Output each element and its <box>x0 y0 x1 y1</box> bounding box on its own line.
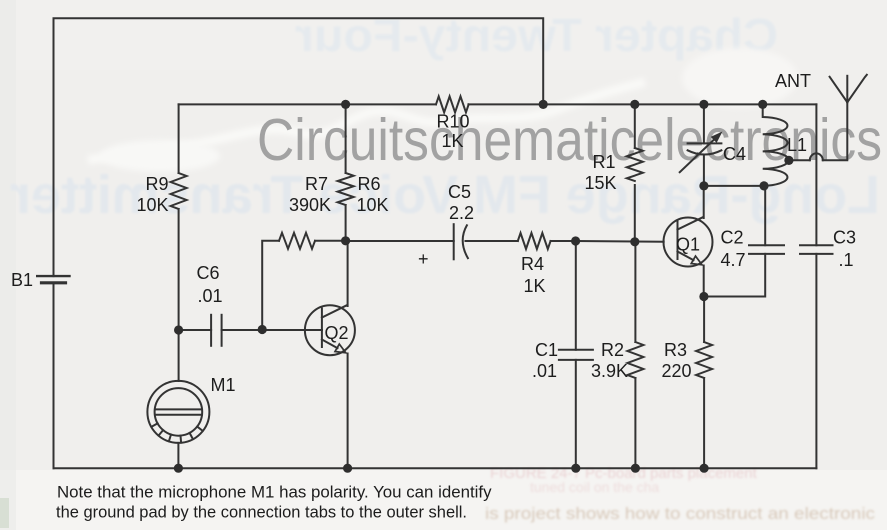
wire: mic node to C6 <box>179 329 212 331</box>
battery B1 <box>37 276 69 283</box>
wire: hop to antenna <box>823 102 848 160</box>
node: C4 bottom rail <box>699 181 708 190</box>
svg-text:220: 220 <box>662 361 692 381</box>
wire: C6 to Q2 base <box>222 329 322 331</box>
label R4 value <box>521 254 546 296</box>
svg-text:10K: 10K <box>357 195 389 215</box>
wire: Q2 base node riser to R7 <box>262 241 279 330</box>
wire: collector node to C5 <box>346 240 454 242</box>
label C2 value <box>721 228 746 271</box>
wire: V+ rail left of R10 <box>179 103 436 105</box>
label C1 value <box>532 340 558 381</box>
svg-text:Note that the microphone M1 ha: Note that the microphone M1 has polarity… <box>57 484 492 502</box>
wire: R6 top connection <box>345 104 347 173</box>
wire: V+ rail right of R10 <box>468 103 816 105</box>
wire: R4 to node <box>551 240 576 242</box>
svg-text:Q2: Q2 <box>325 323 349 343</box>
capacitor C5 <box>454 224 468 259</box>
wire: Q1 emitter to node <box>703 266 705 297</box>
resistor R10 <box>436 96 469 112</box>
wire: C2 to tank rail <box>764 186 766 245</box>
svg-text:R6: R6 <box>358 174 381 194</box>
label C4 <box>723 144 746 164</box>
label M1 <box>211 375 236 395</box>
node: Q1 emitter junction <box>699 292 708 301</box>
svg-text:L1: L1 <box>787 135 807 155</box>
wire: tank bottom rail <box>704 185 764 187</box>
wire: M1 to ground <box>177 443 179 468</box>
resistor R2 <box>627 342 643 378</box>
label R1 value <box>584 152 616 193</box>
node: feed junction <box>539 100 548 109</box>
wire: R2 to ground <box>634 378 636 468</box>
svg-text:4.7: 4.7 <box>721 250 746 270</box>
capacitor C1 <box>559 350 593 360</box>
antenna ANT <box>830 75 867 103</box>
svg-text:C4: C4 <box>723 144 746 164</box>
node: Q1 base junction <box>630 237 639 246</box>
wire: R9 branch upper <box>178 104 180 173</box>
resistor R6 <box>338 173 354 205</box>
wire: C4 bottom connection <box>703 155 705 186</box>
wire: R3 to ground <box>703 378 705 468</box>
svg-text:the ground pad by the connecti: the ground pad by the connection tabs to… <box>56 504 467 522</box>
node: Q2 base junction <box>258 325 267 334</box>
wire: R2 riser <box>634 242 636 342</box>
svg-text:ANT: ANT <box>775 71 811 91</box>
node: ground Q2 emitter <box>343 464 352 473</box>
label B1 <box>11 270 33 290</box>
wire: V+ drop to C3 <box>815 104 817 245</box>
variable capacitor C4 <box>680 133 722 173</box>
capacitor C6 <box>211 315 222 346</box>
node: L1 top <box>758 100 767 109</box>
svg-text:C6: C6 <box>197 263 220 283</box>
note text <box>56 484 492 522</box>
wire: L1 tap to hop <box>789 159 810 161</box>
resistor R3 <box>696 342 712 378</box>
resistor R9 <box>171 173 187 209</box>
resistor R1 <box>627 148 643 181</box>
label C6 value <box>197 263 223 306</box>
inductor L1 <box>763 104 789 185</box>
svg-text:C5: C5 <box>448 182 471 202</box>
node: mic junction <box>174 325 183 334</box>
wire: R9 bottom to mic node <box>178 209 180 381</box>
svg-text:Chapter Twenty-Four: Chapter Twenty-Four <box>295 9 778 61</box>
transistor Q1 <box>664 217 713 267</box>
wire: C1 to ground <box>575 360 577 468</box>
svg-text:3.9K: 3.9K <box>591 361 628 381</box>
wire: R7 to collector node <box>315 240 346 242</box>
wire: Q1 collector to tank rail <box>703 186 705 218</box>
node: ground C1 <box>571 464 580 473</box>
label L1 <box>787 135 807 155</box>
svg-text:.1: .1 <box>839 250 854 270</box>
node: R1 top <box>630 100 639 109</box>
label Q2 <box>325 323 349 343</box>
svg-text:R9: R9 <box>145 174 168 194</box>
svg-text:R1: R1 <box>592 152 615 172</box>
svg-text:R4: R4 <box>521 254 544 274</box>
svg-text:R2: R2 <box>601 340 624 360</box>
wire: R1 top connection <box>634 104 636 148</box>
svg-text:R10: R10 <box>437 112 470 132</box>
svg-text:M1: M1 <box>211 375 236 395</box>
label C5 polarity <box>418 249 429 269</box>
svg-text:1K: 1K <box>442 131 464 151</box>
node: L1 bottom rail <box>759 181 768 190</box>
node: Q2 collector junction <box>341 236 350 245</box>
wire: R3 top <box>703 297 705 343</box>
capacitor C3 <box>800 245 833 254</box>
wire: outer loop top (battery+ to feed point) <box>54 18 544 276</box>
svg-text:Q1: Q1 <box>676 235 700 255</box>
label R3 value <box>662 340 692 381</box>
wire: hop over V+ drop <box>810 153 823 160</box>
svg-text:is project shows how to constr: is project shows how to construct an ele… <box>485 505 875 523</box>
wire: battery negative to ground rail <box>53 283 55 469</box>
label ANT <box>775 71 811 91</box>
wire: R1 bottom to base node <box>634 185 636 242</box>
svg-text:.01: .01 <box>532 361 557 381</box>
wire: node to Q1 base <box>576 240 664 243</box>
label R6 value <box>357 174 389 215</box>
wire: Q2 emitter to ground <box>347 354 349 469</box>
wire: R6 bottom to collector node <box>345 205 347 241</box>
node: L1 tap <box>784 156 793 165</box>
svg-text:.01: .01 <box>198 286 223 306</box>
svg-text:C3: C3 <box>833 228 856 248</box>
label C5 value <box>448 182 474 223</box>
node: R6 top <box>341 100 350 109</box>
resistor R7 <box>279 233 315 249</box>
svg-text:390K: 390K <box>289 195 331 215</box>
label R2 value <box>591 340 628 381</box>
wire: C3 to ground rail <box>815 254 817 468</box>
transistor Q2 <box>305 305 355 355</box>
svg-text:B1: B1 <box>11 270 33 290</box>
microphone M1 <box>147 381 209 443</box>
label R10 value <box>437 112 470 152</box>
node: R4 output junction <box>571 236 580 245</box>
svg-text:2.2: 2.2 <box>449 203 474 223</box>
svg-text:1K: 1K <box>524 276 546 296</box>
wire: C1 riser <box>575 241 577 350</box>
svg-text:10K: 10K <box>136 195 168 215</box>
label R9 value <box>136 174 168 215</box>
wire: emitter node to C2 <box>704 254 766 297</box>
node: C4 top <box>699 100 708 109</box>
svg-text:C2: C2 <box>721 228 744 248</box>
wire: C4 top connection <box>703 104 705 143</box>
svg-text:R7: R7 <box>305 174 328 194</box>
svg-text:tuned coil on the cha: tuned coil on the cha <box>530 479 659 495</box>
node: ground R2 <box>631 464 640 473</box>
wire: C5 to R4 <box>466 240 518 242</box>
node: ground M1 <box>174 464 183 473</box>
svg-text:15K: 15K <box>584 173 616 193</box>
svg-text:+: + <box>418 249 429 269</box>
label Q1 <box>676 235 700 255</box>
node: ground R3 <box>700 464 709 473</box>
resistor R4 <box>518 233 551 249</box>
label R7 value <box>289 174 331 215</box>
wire: ground rail <box>54 467 817 469</box>
label C3 value <box>833 228 856 271</box>
svg-text:R3: R3 <box>664 340 687 360</box>
capacitor C2 <box>749 245 784 254</box>
svg-text:C1: C1 <box>535 340 558 360</box>
wire: Q2 collector to node <box>347 241 349 306</box>
